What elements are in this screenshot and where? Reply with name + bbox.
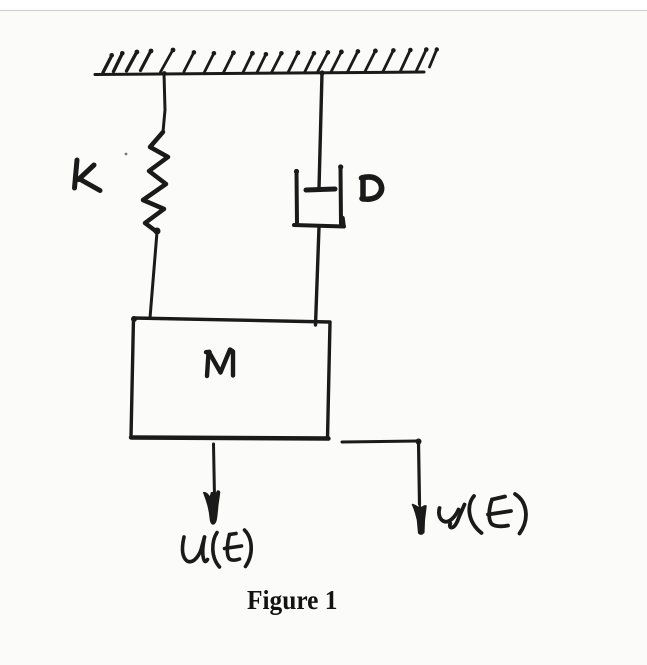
ceiling hatch marks (103, 47, 439, 73)
caption Figure 1 (247, 585, 337, 616)
damper piston plate (306, 189, 335, 190)
label y(t) (439, 494, 526, 534)
rod: damper to mass (316, 227, 320, 325)
rod: ceiling to spring (162, 71, 167, 132)
damper D cylinder (294, 164, 344, 226)
spring K (143, 132, 168, 235)
top rule (0, 0, 647, 11)
label D (362, 177, 382, 199)
rod: ceiling to damper piston (319, 70, 325, 189)
mass M rectangle (131, 316, 330, 439)
rod: spring to mass (150, 232, 157, 318)
label M (206, 350, 233, 377)
displacement arrow y(t) head (413, 504, 427, 535)
label K (75, 153, 128, 191)
wire: mass bottom-right to y arrow (342, 439, 422, 505)
force arrow u(t) shaft (214, 444, 215, 497)
force arrow u(t) head (204, 491, 220, 524)
fixed support ceiling line (95, 72, 424, 75)
label u(t) (183, 530, 252, 567)
